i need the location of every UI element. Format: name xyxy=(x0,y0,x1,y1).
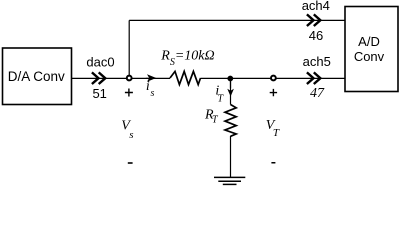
svg-text:i: i xyxy=(146,79,150,94)
svg-text:dac0: dac0 xyxy=(86,55,114,70)
svg-text:ach5: ach5 xyxy=(303,54,331,69)
svg-text:A/D: A/D xyxy=(358,34,380,49)
svg-text:46: 46 xyxy=(309,28,323,43)
svg-text:51: 51 xyxy=(92,86,106,101)
svg-text:T: T xyxy=(218,93,225,104)
svg-text:s: s xyxy=(129,129,133,141)
svg-text:Conv: Conv xyxy=(354,49,385,64)
svg-text:T: T xyxy=(212,114,219,125)
svg-text:s: s xyxy=(151,88,155,99)
svg-text:47: 47 xyxy=(310,86,325,101)
svg-text:ach4: ach4 xyxy=(302,0,330,13)
svg-text:RS=10kΩ: RS=10kΩ xyxy=(160,49,214,68)
svg-text:T: T xyxy=(273,127,280,139)
svg-text:D/A Conv: D/A Conv xyxy=(8,69,65,84)
